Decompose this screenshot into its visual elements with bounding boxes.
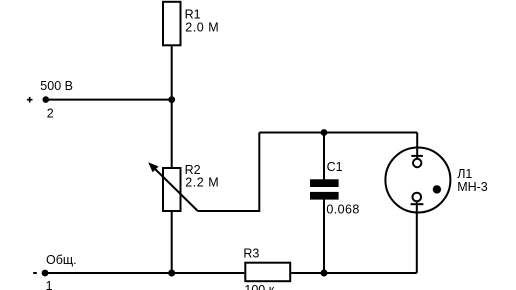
wire C1 to bottom bus [323,199,325,273]
node 2 terminal dot [43,96,50,103]
lamp bottom electrode [413,193,422,202]
svg-text:C1: C1 [327,160,343,174]
junction A dot [168,96,175,103]
svg-text:МН-3: МН-3 [457,180,488,194]
resistor R3 [245,263,290,282]
wire R3 to lamp corner [291,272,417,274]
svg-text:Л1: Л1 [457,167,472,181]
junction dot top bus [321,129,328,136]
lamp top electrode [411,155,423,157]
lamp gas indicator dot [433,185,441,193]
wire R1 bottom to junction A [171,46,173,100]
svg-text:0.068: 0.068 [326,203,359,217]
node 1 terminal dot [42,270,49,277]
svg-text:100 к: 100 к [244,283,274,290]
label - [33,272,37,274]
wire terminal 1 to R3 [45,272,244,274]
svg-text:2: 2 [47,106,54,120]
resistor R1 [163,2,181,46]
wire terminal 2 to junction A [46,99,172,101]
junction dot C1 bottom [321,270,328,277]
top bus wire [259,132,417,134]
wire R2 bottom to bottom bus [171,211,173,273]
svg-text:2.0 М: 2.0 М [185,20,219,34]
wire lamp cathode lead [416,202,418,274]
R2 wiper arrow [152,166,198,211]
svg-text:R3: R3 [243,246,259,260]
resistor R2 (rheostat body) [163,168,181,211]
svg-text:500 В: 500 В [40,79,73,93]
lamp Л1 envelope [385,148,450,213]
wire lamp anode lead [416,133,418,159]
wire R2 wiper to top bus (tap) [198,133,259,212]
capacitor C1 plates [310,179,339,187]
wire junction A to R2 top [171,100,173,167]
svg-text:1: 1 [46,279,53,290]
junction dot R2 bottom [168,270,175,277]
wire top bus to C1 [323,133,325,181]
svg-text:Общ.: Общ. [46,253,77,267]
svg-text:2.2 М: 2.2 М [185,176,219,190]
label + [27,97,33,103]
